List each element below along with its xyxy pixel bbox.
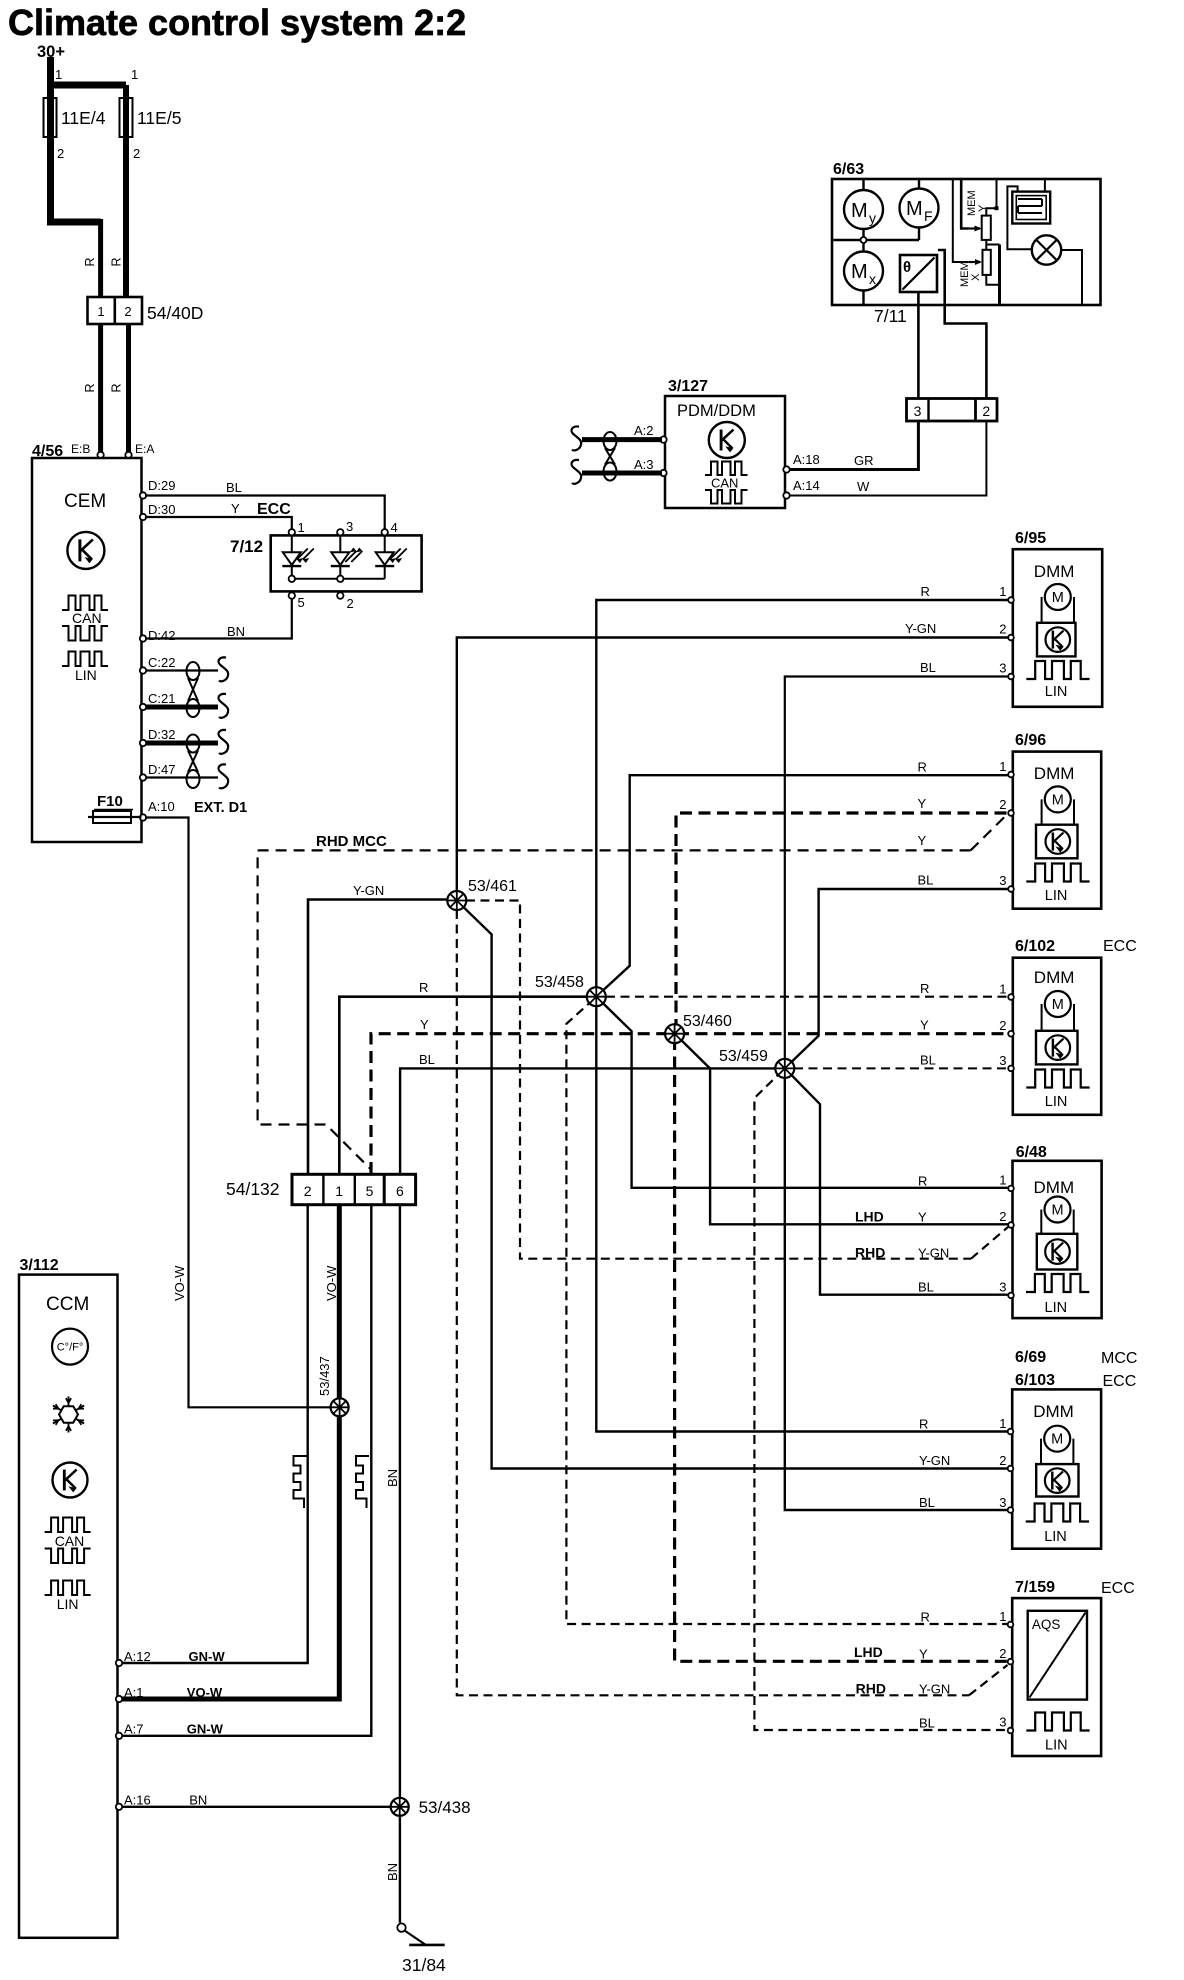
svg-text:RHD: RHD xyxy=(855,1245,885,1261)
svg-text:M: M xyxy=(1052,997,1064,1013)
svg-text:BL: BL xyxy=(919,1716,935,1731)
svg-text:E:B: E:B xyxy=(71,442,90,456)
wire VO-W thick from 54/132 pin1 down to CCM A:1 xyxy=(121,1205,340,1699)
svg-text:D:30: D:30 xyxy=(148,502,175,517)
svg-text:3: 3 xyxy=(999,661,1006,676)
svg-text:X: X xyxy=(970,273,982,281)
svg-text:53/461: 53/461 xyxy=(468,878,517,895)
wire branch to fuse 11E/5 xyxy=(47,82,126,89)
MEM Y potentiometer xyxy=(953,179,969,262)
svg-text:LIN: LIN xyxy=(1045,1738,1068,1754)
svg-text:A:16: A:16 xyxy=(124,1793,151,1808)
svg-text:M: M xyxy=(1051,1432,1063,1448)
svg-text:Y-GN: Y-GN xyxy=(919,1682,950,1697)
svg-text:DMM: DMM xyxy=(1033,1402,1074,1421)
svg-text:6/63: 6/63 xyxy=(833,161,864,178)
svg-text:MCC: MCC xyxy=(1101,1350,1137,1367)
CEM box xyxy=(32,458,142,842)
svg-text:D:47: D:47 xyxy=(148,762,175,777)
junction 53/459 xyxy=(775,1059,794,1078)
motor My xyxy=(862,179,864,190)
wire BL from CEM D:29 to 7/12 pin 4 xyxy=(145,496,385,530)
wire R to 6/95 pin 1 xyxy=(596,600,1010,994)
svg-text:GN-W: GN-W xyxy=(189,1649,226,1664)
svg-text:C:22: C:22 xyxy=(148,655,175,670)
6/95 box xyxy=(1013,549,1102,707)
CCM box xyxy=(19,1275,118,1938)
svg-text:R: R xyxy=(110,257,124,266)
svg-text:3/112: 3/112 xyxy=(20,1257,59,1274)
svg-text:2: 2 xyxy=(999,1646,1006,1661)
svg-text:F: F xyxy=(924,208,933,224)
svg-text:BN: BN xyxy=(189,1793,207,1808)
svg-text:CAN: CAN xyxy=(72,610,102,626)
svg-text:C:21: C:21 xyxy=(148,691,175,706)
svg-text:LIN: LIN xyxy=(75,667,97,683)
wire BL down to 6/69 pin 3 xyxy=(785,1071,1010,1510)
LIN pulse symbol on A:7 wire xyxy=(356,1456,369,1508)
wire RHD MCC dashed Y-GN to 6/96 pin 2 xyxy=(258,850,971,1169)
svg-text:A:7: A:7 xyxy=(124,1722,144,1737)
svg-text:2: 2 xyxy=(133,146,140,161)
svg-text:Y-GN: Y-GN xyxy=(905,621,936,636)
svg-text:1: 1 xyxy=(298,520,305,535)
svg-text:W: W xyxy=(857,479,870,494)
svg-text:M: M xyxy=(851,261,868,283)
svg-text:7/11: 7/11 xyxy=(874,306,907,326)
indicator lamp xyxy=(1032,235,1061,264)
svg-text:A:18: A:18 xyxy=(793,452,820,467)
svg-text:CAN: CAN xyxy=(711,476,738,491)
wire theta sensor to 7/11 pin 3 xyxy=(917,292,920,399)
connector 54/132 xyxy=(292,1174,416,1204)
wire Y-GN: 54/132 pin2 up and across to junction 53/461 xyxy=(308,900,454,1175)
svg-text:6/69: 6/69 xyxy=(1015,1349,1046,1366)
wire R dashed diagonal down to 7/159 pin 1 xyxy=(566,999,1010,1624)
svg-text:3/127: 3/127 xyxy=(668,378,708,395)
wire Y-GN dashed down to RHD row of 7/159 xyxy=(457,910,969,1695)
svg-text:6/96: 6/96 xyxy=(1015,732,1046,749)
svg-text:C°/F°: C°/F° xyxy=(57,1342,84,1354)
svg-text:3: 3 xyxy=(999,873,1006,888)
svg-text:RHD: RHD xyxy=(856,1681,886,1697)
wire GN-W from CCM A:12 up to 54/132 pin2 xyxy=(121,1205,308,1663)
CCM LIN symbol xyxy=(45,1581,91,1596)
svg-text:2: 2 xyxy=(982,403,990,419)
svg-text:2: 2 xyxy=(347,596,354,611)
svg-text:DMM: DMM xyxy=(1034,968,1075,987)
CEM LIN symbol xyxy=(62,652,108,667)
svg-text:BN: BN xyxy=(385,1469,400,1487)
svg-text:LIN: LIN xyxy=(1045,888,1068,904)
junction 53/460 xyxy=(665,1024,684,1043)
svg-text:CAN: CAN xyxy=(55,1533,85,1549)
svg-text:53/460: 53/460 xyxy=(683,1013,732,1030)
svg-text:1: 1 xyxy=(999,759,1006,774)
svg-text:3: 3 xyxy=(914,403,922,419)
7/12 pin 1 xyxy=(289,529,295,535)
svg-text:5: 5 xyxy=(298,595,305,610)
svg-text:11E/5: 11E/5 xyxy=(137,108,181,128)
svg-text:Y: Y xyxy=(918,796,927,811)
6/69 box xyxy=(1012,1389,1101,1548)
fuse 11E/4 xyxy=(44,98,57,137)
svg-text:3: 3 xyxy=(346,519,353,534)
wire R dashed to 6/102 pin 1 xyxy=(606,996,1010,998)
6/102 internals xyxy=(1026,968,1089,1110)
wire A:2 stub (thick) xyxy=(582,437,662,442)
svg-text:Y-GN: Y-GN xyxy=(353,883,384,898)
wire GN-W from CCM A:7 up to 54/132 pin5 xyxy=(121,1205,372,1736)
svg-text:6/48: 6/48 xyxy=(1016,1144,1047,1161)
svg-text:A:12: A:12 xyxy=(124,1649,151,1664)
wire Y dashed to 6/102 pin 2 xyxy=(677,1032,1010,1035)
7/12 internal bottom bus xyxy=(292,578,385,580)
svg-text:M: M xyxy=(906,198,923,220)
svg-text:ECC: ECC xyxy=(1103,938,1137,955)
3/127 CAN symbol xyxy=(705,462,748,476)
svg-text:BL: BL xyxy=(920,1053,936,1068)
CCM CAN symbol xyxy=(45,1518,91,1533)
motor Mx xyxy=(844,252,883,291)
svg-text:Y: Y xyxy=(918,833,927,848)
twisted pair symbol C:22/C:21 xyxy=(187,662,200,717)
svg-text:31/84: 31/84 xyxy=(402,1955,446,1975)
svg-text:1: 1 xyxy=(335,1183,343,1199)
wire BL diagonal down to 6/48 pin 3 xyxy=(787,1070,1011,1295)
svg-text:Y: Y xyxy=(918,1210,927,1225)
svg-text:Y-GN: Y-GN xyxy=(919,1453,950,1468)
svg-text:2: 2 xyxy=(124,304,131,319)
junction 53/461 xyxy=(447,891,466,910)
svg-text:2: 2 xyxy=(304,1183,312,1199)
7/159 box xyxy=(1012,1598,1101,1756)
wire R down to 6/69 pin 1 xyxy=(596,1000,1010,1432)
CCM K symbol xyxy=(53,1463,88,1498)
wire R diagonal to 6/96 pin 1 xyxy=(598,775,1010,995)
pin E:A xyxy=(125,452,131,458)
7/12 pin 2 xyxy=(337,592,343,598)
svg-text:R: R xyxy=(921,1610,930,1625)
svg-text:DMM: DMM xyxy=(1034,764,1075,783)
svg-text:A:10: A:10 xyxy=(148,799,175,814)
wire GR 7/11-3 to 3/127 A:18 xyxy=(788,421,918,470)
wire BL dashed diagonal down to 7/159 pin 3 xyxy=(754,1070,1010,1730)
svg-text:53/437: 53/437 xyxy=(317,1356,332,1396)
svg-text:6/102: 6/102 xyxy=(1015,938,1055,955)
svg-text:D:32: D:32 xyxy=(148,727,175,742)
svg-text:Y: Y xyxy=(920,1018,929,1033)
svg-text:M: M xyxy=(851,200,868,222)
junction 53/438 xyxy=(391,1798,409,1816)
svg-text:R: R xyxy=(919,1417,928,1432)
wire Y-GN diagonal down to 6/69 pin 2 xyxy=(459,902,1011,1468)
wire C:22 stub xyxy=(146,669,218,671)
svg-text:DMM: DMM xyxy=(1034,1178,1075,1197)
svg-text:R: R xyxy=(918,760,927,775)
svg-text:6: 6 xyxy=(396,1183,404,1199)
wire Y-GN dashed branch to RHD row of 6/48 xyxy=(466,901,971,1259)
svg-text:1: 1 xyxy=(999,1609,1006,1624)
LED/photodiode 3 inside 7/12 xyxy=(384,535,386,578)
svg-text:D:42: D:42 xyxy=(148,628,175,643)
ground connection circle xyxy=(397,1923,405,1931)
6/48 internals xyxy=(1026,1178,1089,1316)
svg-text:BL: BL xyxy=(226,480,242,495)
LED/photodiode 1 inside 7/12 xyxy=(291,535,293,578)
wire BN from 54/132 pin6 down to junction 53/438 xyxy=(399,1205,401,1807)
svg-text:M: M xyxy=(1052,792,1064,808)
wire C:21 stub (thick) xyxy=(146,705,218,710)
svg-text:Climate control system 2:2: Climate control system 2:2 xyxy=(8,2,466,43)
twisted pair symbol D:32/D:47 xyxy=(187,735,200,789)
svg-text:53/438: 53/438 xyxy=(419,1798,471,1817)
svg-text:VO-W: VO-W xyxy=(324,1265,339,1301)
svg-text:CCM: CCM xyxy=(46,1294,89,1315)
7/12 box xyxy=(271,535,422,591)
6/63 box xyxy=(832,179,1101,305)
wire BN from CEM D:42 to 7/12 pin 5 xyxy=(145,599,292,639)
fuse F10 xyxy=(93,811,131,823)
wire 30+ feed vertical into fuse 11E/4 xyxy=(47,57,54,222)
heater element (rear demist) xyxy=(1012,192,1050,224)
svg-text:2: 2 xyxy=(999,797,1006,812)
wire R diagonal down to 6/48 pin 1 xyxy=(598,998,1010,1187)
wire VO-W from CEM A:10 down to junction 53/437 xyxy=(145,818,336,1408)
heater wires xyxy=(1007,186,1031,249)
svg-text:x: x xyxy=(869,271,876,287)
ground lead xyxy=(405,1931,426,1945)
wire Y from CEM D:30 to 7/12 pin 1 xyxy=(145,517,292,529)
twisted pair symbol A:2/A:3 xyxy=(604,432,617,481)
svg-text:7/159: 7/159 xyxy=(1015,1579,1055,1596)
svg-text:BL: BL xyxy=(918,1280,934,1295)
3/127 K symbol xyxy=(709,422,745,458)
wire BN down to ground xyxy=(399,1816,401,1923)
svg-text:54/132: 54/132 xyxy=(226,1179,280,1199)
wire Y-GN up to 6/95 pin 2 xyxy=(457,638,1010,899)
svg-text:PDM/DDM: PDM/DDM xyxy=(677,402,756,420)
wire My/Mx junction xyxy=(862,229,864,252)
break symbol C:21 xyxy=(219,694,229,718)
svg-text:Y: Y xyxy=(919,1647,928,1662)
svg-text:BN: BN xyxy=(385,1863,400,1881)
svg-text:1: 1 xyxy=(131,67,138,82)
svg-text:A:14: A:14 xyxy=(793,478,820,493)
svg-text:6/103: 6/103 xyxy=(1015,1372,1055,1389)
svg-text:3: 3 xyxy=(999,1495,1006,1510)
connector 54/40D xyxy=(88,297,143,324)
svg-text:R: R xyxy=(918,1174,927,1189)
svg-text:Y: Y xyxy=(420,1017,429,1032)
svg-text:CEM: CEM xyxy=(64,491,106,512)
svg-text:R: R xyxy=(83,383,97,392)
7/159 LIN symbol xyxy=(1026,1713,1089,1731)
wire Y dashed up to 6/96 pin 2 xyxy=(676,813,1010,1031)
6/102 box xyxy=(1013,958,1101,1115)
CEM K symbol xyxy=(67,532,104,569)
svg-text:AQS: AQS xyxy=(1032,1617,1061,1632)
svg-text:2: 2 xyxy=(999,622,1006,637)
svg-text:M: M xyxy=(1052,590,1064,606)
svg-text:LIN: LIN xyxy=(57,1596,79,1612)
svg-text:BL: BL xyxy=(419,1052,435,1067)
svg-text:LIN: LIN xyxy=(1045,1094,1068,1110)
7/12 pin 3 xyxy=(337,529,343,535)
svg-text:54/40D: 54/40D xyxy=(147,303,203,323)
LED/photodiode 2 inside 7/12 xyxy=(339,535,341,578)
svg-text:2: 2 xyxy=(999,1018,1006,1033)
svg-text:BN: BN xyxy=(227,624,245,639)
svg-text:Y: Y xyxy=(231,501,240,516)
wire R net: 54/132 pin1 up and across to junction 53/458 xyxy=(339,997,594,1174)
svg-text:1: 1 xyxy=(999,982,1006,997)
svg-text:Y: Y xyxy=(977,204,989,212)
svg-text:1: 1 xyxy=(97,304,104,319)
svg-text:R: R xyxy=(83,257,97,266)
svg-text:E:A: E:A xyxy=(135,442,154,456)
svg-text:53/458: 53/458 xyxy=(535,974,584,991)
svg-text:VO-W: VO-W xyxy=(172,1265,187,1301)
svg-text:ECC: ECC xyxy=(1101,1580,1135,1597)
svg-text:1: 1 xyxy=(55,67,62,82)
wire Y solid diagonal to 6/48 pin 2 xyxy=(676,1035,1010,1224)
svg-text:LIN: LIN xyxy=(1045,684,1068,700)
6/95 internals xyxy=(1026,562,1089,700)
svg-text:R: R xyxy=(419,980,428,995)
6/96 internals xyxy=(1026,764,1089,904)
svg-text:3: 3 xyxy=(999,1053,1006,1068)
svg-text:LIN: LIN xyxy=(1044,1529,1067,1545)
svg-text:R: R xyxy=(920,981,929,996)
AQS symbol xyxy=(1028,1611,1087,1700)
svg-text:1: 1 xyxy=(999,1173,1006,1188)
svg-text:θ: θ xyxy=(903,259,911,276)
wire BL: 54/132 pin6 up and across to junction 53/459 xyxy=(400,1068,782,1174)
6/96 box xyxy=(1013,752,1101,909)
svg-text:y: y xyxy=(869,210,876,226)
break symbol A:2 xyxy=(572,426,582,450)
svg-text:A:3: A:3 xyxy=(634,457,654,472)
temperature sensor box (theta) xyxy=(900,255,937,292)
wire Y dashed down to LHD row of 7/159 xyxy=(675,1038,1010,1661)
svg-text:Y-GN: Y-GN xyxy=(918,1246,949,1261)
wire W 7/11-2 to 3/127 A:14 xyxy=(788,421,986,496)
svg-text:1: 1 xyxy=(999,1416,1006,1431)
break symbol D:32 xyxy=(219,730,229,754)
break symbol A:3 xyxy=(572,460,582,484)
wire BN from CCM A:16 to junction 53/438 xyxy=(121,1806,400,1808)
svg-text:ECC: ECC xyxy=(1103,1373,1137,1390)
svg-text:3: 3 xyxy=(999,1280,1006,1295)
CEM CAN symbol xyxy=(62,596,108,611)
svg-text:2: 2 xyxy=(999,1209,1006,1224)
svg-text:11E/4: 11E/4 xyxy=(61,108,106,128)
svg-text:GN-W: GN-W xyxy=(187,1722,224,1737)
wire D:47 stub xyxy=(146,776,218,778)
wire BL diagonal up to 6/96 pin 3 xyxy=(787,889,1011,1067)
svg-text:D:29: D:29 xyxy=(148,478,175,493)
svg-text:5: 5 xyxy=(366,1183,374,1199)
svg-text:R: R xyxy=(110,383,124,392)
LIN pulse symbol on A:12 wire xyxy=(294,1456,307,1508)
svg-text:1: 1 xyxy=(999,584,1006,599)
svg-text:M: M xyxy=(1051,1203,1063,1219)
svg-text:A:2: A:2 xyxy=(634,423,654,438)
7/12 pin 5 xyxy=(289,592,295,598)
pin E:B xyxy=(97,452,103,458)
motor MF xyxy=(918,179,920,189)
wire from 6/63 to 7/11 pin 2 xyxy=(938,250,986,399)
svg-text:LHD: LHD xyxy=(854,1644,883,1660)
svg-text:53/459: 53/459 xyxy=(719,1048,768,1065)
svg-text:F10: F10 xyxy=(97,793,123,810)
wire A:3 stub (thick) xyxy=(582,471,662,476)
7/12 pin 4 xyxy=(382,529,388,535)
fuse 11E/5 xyxy=(120,98,133,137)
wire BL up to 6/95 pin 3 xyxy=(785,677,1010,1067)
svg-text:6/95: 6/95 xyxy=(1015,530,1046,547)
svg-text:ECC: ECC xyxy=(257,501,291,518)
6/48 box xyxy=(1013,1161,1102,1318)
wire from 11E/4 jog to connector 54/40D pin 1 xyxy=(47,219,101,226)
svg-text:EXT. D1: EXT. D1 xyxy=(194,800,247,816)
ground 31/84 xyxy=(409,1944,445,1947)
svg-text:RHD MCC: RHD MCC xyxy=(316,833,387,850)
svg-text:BL: BL xyxy=(920,660,936,675)
svg-text:GR: GR xyxy=(854,453,874,468)
6/69 internals xyxy=(1026,1402,1089,1545)
svg-text:7/12: 7/12 xyxy=(230,537,263,556)
svg-text:BL: BL xyxy=(918,873,934,888)
svg-text:LIN: LIN xyxy=(1045,1300,1068,1316)
wire D:32 stub (thick) xyxy=(146,741,218,746)
MEM X potentiometer xyxy=(969,261,980,263)
svg-text:4: 4 xyxy=(391,520,398,535)
svg-text:2: 2 xyxy=(57,146,64,161)
junction 53/458 xyxy=(587,987,606,1006)
CCM snowflake (AC) symbol xyxy=(53,1397,84,1433)
wire BL dashed to 6/102 pin 3 xyxy=(794,1067,1010,1069)
connector 7/11 xyxy=(907,399,998,422)
svg-text:2: 2 xyxy=(999,1453,1006,1468)
wire Y dashed: 54/132 pin5 up and across to junction 53/460 xyxy=(371,1034,672,1174)
3/127 box xyxy=(665,396,785,508)
break symbol D:47 xyxy=(219,764,229,788)
svg-text:3: 3 xyxy=(999,1715,1006,1730)
svg-text:R: R xyxy=(921,584,930,599)
wire 54/40D pin2 to CEM E:A xyxy=(126,324,131,452)
lamp right wire down to box bottom xyxy=(1061,250,1082,304)
svg-text:A:1: A:1 xyxy=(124,1685,144,1700)
svg-text:BL: BL xyxy=(919,1495,935,1510)
wire 54/40D pin1 to CEM E:B xyxy=(98,324,103,452)
svg-text:LHD: LHD xyxy=(855,1209,884,1225)
svg-text:VO-W: VO-W xyxy=(187,1685,223,1700)
CCM temperature C/F symbol xyxy=(52,1329,88,1365)
svg-text:DMM: DMM xyxy=(1034,562,1075,581)
break symbol C:22 xyxy=(219,657,229,681)
